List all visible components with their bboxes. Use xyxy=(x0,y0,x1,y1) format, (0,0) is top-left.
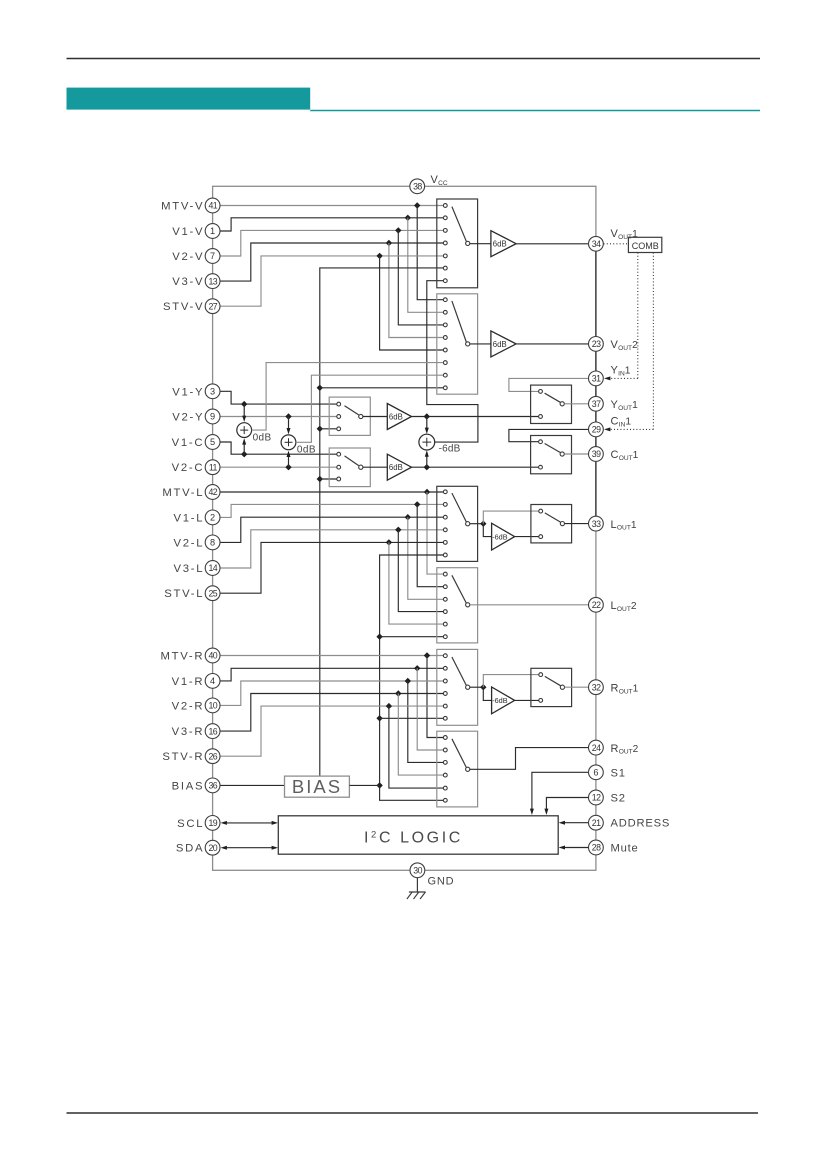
wire MTV-V xyxy=(220,205,443,207)
op-amp AY 6dB (Y) xyxy=(387,404,411,430)
teal header rule xyxy=(310,110,760,112)
switch SW1 Vout1 selector xyxy=(437,199,478,288)
wire BIAS output to bias rail xyxy=(349,784,379,786)
pin 13 V3-V xyxy=(205,274,220,289)
switch SWRO (Rout1 select) xyxy=(531,668,572,706)
svg-text:Mute: Mute xyxy=(611,843,639,855)
svg-text:34: 34 xyxy=(592,239,601,249)
wire direct branch to Rout1 switch xyxy=(483,675,538,688)
switch SWCO (Cout1 select) xyxy=(531,436,572,474)
svg-text:BIAS: BIAS xyxy=(292,776,342,797)
wire MTV-L xyxy=(220,491,443,493)
pin 32 ROUT1 xyxy=(589,680,604,695)
svg-text:V3-R: V3-R xyxy=(172,726,205,738)
wire direct branch to Lout1 switch xyxy=(483,511,538,524)
svg-text:V1-C: V1-C xyxy=(172,437,205,449)
svg-text:LOUT1: LOUT1 xyxy=(611,519,637,532)
svg-text:VOUT2: VOUT2 xyxy=(611,339,639,352)
wire pin 36 to BIAS box xyxy=(220,784,284,786)
BIAS block xyxy=(285,776,350,797)
pin 24 ROUT2 xyxy=(589,740,604,755)
svg-text:COUT1: COUT1 xyxy=(611,449,639,462)
pin 4 V1-R xyxy=(205,674,220,689)
wire SW5 output junction xyxy=(470,686,483,688)
svg-text:6dB: 6dB xyxy=(389,463,403,472)
wire MTV-R tap to SW6 xyxy=(427,656,443,738)
pin 3 V1-Y xyxy=(205,384,220,399)
wire MTV-L tap to SW4 xyxy=(427,492,443,574)
svg-text:0dB: 0dB xyxy=(297,445,316,456)
switch SWY (Y select) xyxy=(329,397,370,435)
svg-text:SCL: SCL xyxy=(177,818,204,830)
wire STV-R tap to SW6 xyxy=(389,706,443,788)
svg-text:V3-L: V3-L xyxy=(174,563,205,575)
pin 16 V3-R xyxy=(205,724,220,739)
wire STV-L xyxy=(220,542,443,593)
svg-text:LOUT2: LOUT2 xyxy=(611,600,637,613)
svg-text:0dB: 0dB xyxy=(253,433,272,444)
summing node N2 0dB (V2 Y+C) xyxy=(288,417,290,430)
wire Cin1 loop from pin 29 xyxy=(509,429,589,441)
pin 11 V2-C xyxy=(205,460,220,475)
ground symbol xyxy=(416,878,418,892)
svg-text:V1-R: V1-R xyxy=(172,676,205,688)
svg-text:CIN1: CIN1 xyxy=(611,416,632,429)
pin 28 Mute xyxy=(589,840,604,855)
summing node N3 -6dB (comb) xyxy=(426,417,428,430)
wire V1-L tap to SW4 xyxy=(417,504,443,586)
svg-text:8: 8 xyxy=(210,538,215,548)
wire S2 from pin 12 to I2C logic xyxy=(546,798,588,810)
svg-text:9: 9 xyxy=(210,412,215,422)
switch SW5 Rout1 selector xyxy=(437,649,478,725)
svg-text:29: 29 xyxy=(592,425,601,435)
wire V1-Y xyxy=(220,391,337,404)
pin 37 YOUT1 xyxy=(589,396,604,411)
wire V1-R xyxy=(220,668,443,681)
svg-text:19: 19 xyxy=(209,818,218,828)
wire V2-Y xyxy=(220,416,337,418)
svg-text:13: 13 xyxy=(209,276,218,286)
svg-text:27: 27 xyxy=(209,301,218,311)
wire SDA pin 20 to I2C logic xyxy=(227,847,273,849)
op-amp A1 6dB (Vout1) xyxy=(491,231,516,257)
pin 30 GND xyxy=(410,863,425,878)
svg-text:12: 12 xyxy=(592,793,601,803)
switch SW3 Lout1 selector xyxy=(437,486,478,561)
pin 6 S1 xyxy=(589,765,604,780)
wire V2-V tap to SW2 xyxy=(398,230,443,325)
svg-text:STV-L: STV-L xyxy=(164,588,204,600)
wire V3-L tap to SW4 xyxy=(398,530,443,612)
switch SWC (C select) xyxy=(329,448,370,487)
svg-text:42: 42 xyxy=(209,487,218,497)
COMB block xyxy=(628,237,661,252)
pin 31 YIN1 xyxy=(589,371,604,386)
wire attenuated branch to amp AL xyxy=(483,524,491,537)
wire AC out to Cout1 switch xyxy=(412,466,539,468)
svg-text:MTV-V: MTV-V xyxy=(161,201,204,213)
pin 41 MTV-V xyxy=(205,198,220,213)
svg-text:23: 23 xyxy=(592,339,601,349)
right bus dark segment (pins 34-33) xyxy=(595,244,597,524)
pin 9 V2-Y xyxy=(205,409,220,424)
pin 39 COUT1 xyxy=(589,447,604,462)
wire dotted COMB to pin 29 (Cin1) xyxy=(652,253,654,430)
svg-text:MTV-L: MTV-L xyxy=(162,487,204,499)
svg-text:32: 32 xyxy=(592,682,601,692)
wire dotted COMB to pin 31 (Yin1) xyxy=(637,253,639,379)
pin 40 MTV-R xyxy=(205,648,220,663)
svg-text:6: 6 xyxy=(593,768,598,778)
op-amp A2 6dB (Vout2) xyxy=(491,331,516,357)
svg-text:25: 25 xyxy=(209,588,218,598)
wire V2-V xyxy=(220,230,443,256)
pin 26 STV-R xyxy=(205,749,220,764)
svg-text:2: 2 xyxy=(210,513,215,523)
svg-text:BIAS: BIAS xyxy=(172,780,205,792)
svg-text:GND: GND xyxy=(428,876,455,888)
wire comb CVBS loop to SW1 c7 xyxy=(427,281,478,442)
page top rule xyxy=(67,58,761,60)
svg-text:V2-V: V2-V xyxy=(172,251,204,263)
svg-text:V2-Y: V2-Y xyxy=(172,412,204,424)
svg-text:28: 28 xyxy=(592,843,601,853)
wire V1-V xyxy=(220,218,443,231)
IC outline rails xyxy=(213,186,596,870)
svg-text:16: 16 xyxy=(209,726,218,736)
svg-text:V3-V: V3-V xyxy=(172,276,204,288)
svg-text:37: 37 xyxy=(592,399,601,409)
svg-text:38: 38 xyxy=(413,182,422,192)
svg-text:30: 30 xyxy=(413,866,422,876)
wire dotted pin 34 to COMB xyxy=(604,243,629,245)
svg-text:V2-C: V2-C xyxy=(172,462,205,474)
pin 10 V2-R xyxy=(205,698,220,713)
wire bias rail (V/Y/C sections) xyxy=(320,268,443,776)
pin 34 VOUT1 xyxy=(589,236,604,251)
op-amp AL -6dB (L) xyxy=(492,523,515,550)
svg-text:-6dB: -6dB xyxy=(492,696,508,705)
svg-text:33: 33 xyxy=(592,519,601,529)
switch SW4 Lout2 selector xyxy=(437,568,478,643)
svg-text:36: 36 xyxy=(209,781,218,791)
pin 36 BIAS xyxy=(205,778,220,793)
svg-text:V1-V: V1-V xyxy=(172,226,204,238)
wire V2-L tap to SW4 xyxy=(408,517,443,599)
pin 21 ADDRESS xyxy=(589,815,604,830)
wire SW1 to amp A1 xyxy=(470,243,491,245)
svg-text:V2-L: V2-L xyxy=(174,537,205,549)
svg-text:10: 10 xyxy=(209,701,218,711)
pin 42 MTV-L xyxy=(205,485,220,500)
switch SWYO (Yout1 select) xyxy=(531,385,572,423)
wire S1 from pin 6 to I2C logic xyxy=(532,772,589,809)
svg-text:7: 7 xyxy=(210,251,215,261)
pin 27 STV-V xyxy=(205,299,220,314)
wire bias branch to SW5 c6 xyxy=(380,717,444,719)
svg-text:4: 4 xyxy=(210,676,215,686)
pin 38 Vcc xyxy=(410,179,425,194)
wire attenuated branch to amp AR xyxy=(483,687,491,700)
wire N2 out to SW2 c7 xyxy=(296,375,443,442)
pin 2 V1-L xyxy=(205,510,220,525)
op-amp AC 6dB (C) xyxy=(387,454,411,480)
pin 20 SDA xyxy=(205,840,220,855)
wire V3-R tap to SW6 xyxy=(398,694,443,776)
svg-text:V1-L: V1-L xyxy=(174,512,205,524)
svg-text:MTV-R: MTV-R xyxy=(161,651,205,663)
svg-text:-6dB: -6dB xyxy=(492,532,508,541)
wire V2-R tap to SW6 xyxy=(408,681,443,762)
svg-text:24: 24 xyxy=(592,743,601,753)
svg-text:I2C LOGIC: I2C LOGIC xyxy=(364,829,463,846)
svg-text:YOUT1: YOUT1 xyxy=(611,399,639,412)
wire SWCO to pin 39 xyxy=(564,453,588,455)
wire SWRO to pin 32 xyxy=(565,686,589,688)
svg-text:6dB: 6dB xyxy=(493,240,507,249)
svg-text:VOUT1: VOUT1 xyxy=(611,228,639,241)
wire ADDRESS from pin 21 to I2C logic xyxy=(565,822,589,824)
switch SWLO (Lout1 select) xyxy=(531,505,572,543)
wire STV-R xyxy=(220,706,443,756)
svg-text:-6dB: -6dB xyxy=(439,443,461,454)
svg-text:11: 11 xyxy=(209,462,218,472)
pin 7 V2-V xyxy=(205,249,220,264)
pin 23 VOUT2 xyxy=(589,337,604,352)
svg-text:6dB: 6dB xyxy=(389,412,403,421)
wire SWC to amp AC xyxy=(363,466,387,468)
svg-text:S1: S1 xyxy=(611,767,626,779)
svg-text:26: 26 xyxy=(209,751,218,761)
svg-text:SDA: SDA xyxy=(176,843,204,855)
svg-text:V1-Y: V1-Y xyxy=(172,386,204,398)
wire bias branch to SW4 c6 xyxy=(380,636,444,638)
pin 1 V1-V xyxy=(205,224,220,239)
wire SWYO to pin 37 xyxy=(564,403,588,405)
wire bias branch to SW2 c8 xyxy=(320,387,443,389)
pin 22 LOUT2 xyxy=(589,597,604,612)
wire V3-R xyxy=(220,694,443,732)
wire SW3 output junction xyxy=(470,523,483,525)
wire bias branch to Y switch c3 xyxy=(320,428,337,430)
svg-text:40: 40 xyxy=(209,651,218,661)
pin 19 SCL xyxy=(205,816,220,831)
wire V2-C xyxy=(220,466,337,468)
wire SCL pin 19 to I2C logic xyxy=(227,822,273,824)
svg-text:14: 14 xyxy=(209,563,218,573)
svg-text:V2-R: V2-R xyxy=(172,700,205,712)
svg-text:STV-R: STV-R xyxy=(162,751,204,763)
svg-text:41: 41 xyxy=(209,201,218,211)
wire STV-V xyxy=(220,256,443,306)
wire STV-L tap to SW4 xyxy=(389,542,443,624)
svg-text:ADDRESS: ADDRESS xyxy=(611,818,671,830)
wire SW2 to amp A2 xyxy=(470,343,491,345)
wire V1-V tap to SW2 xyxy=(408,218,443,312)
wire A2 to pin 23 xyxy=(516,343,588,345)
wire bias rail (L/R sections) xyxy=(380,555,444,800)
wire V1-C xyxy=(220,442,337,454)
pin 33 LOUT1 xyxy=(589,516,604,531)
svg-text:ROUT1: ROUT1 xyxy=(611,682,639,695)
pin 25 STV-L xyxy=(205,586,220,601)
svg-text:5: 5 xyxy=(210,437,215,447)
wire SWY to amp AY xyxy=(363,416,387,418)
wire MTV-V tap to SW2 xyxy=(417,206,443,300)
svg-text:31: 31 xyxy=(592,374,601,384)
page bottom rule xyxy=(67,1112,759,1114)
svg-text:S2: S2 xyxy=(611,793,626,805)
svg-text:3: 3 xyxy=(210,387,215,397)
op-amp AR -6dB (R) xyxy=(492,687,515,714)
svg-text:6dB: 6dB xyxy=(493,340,507,349)
svg-text:39: 39 xyxy=(592,449,601,459)
switch SW6 Rout2 selector xyxy=(437,731,478,807)
svg-text:22: 22 xyxy=(592,600,601,610)
wire AR out to Rout1 switch xyxy=(515,699,539,701)
teal header bar xyxy=(67,88,311,110)
summing node N1 0dB (V1 Y+C) xyxy=(243,404,245,417)
wire V1-L xyxy=(220,504,443,517)
svg-text:STV-V: STV-V xyxy=(163,301,204,313)
wire V1-R tap to SW6 xyxy=(417,668,443,750)
wire V2-R xyxy=(220,681,443,705)
I2C LOGIC block xyxy=(278,816,558,854)
pin 29 CIN1 xyxy=(589,422,604,437)
wire SW6 to pin 24 xyxy=(470,748,589,770)
svg-text:21: 21 xyxy=(592,818,601,828)
wire AY out to Yout1 switch xyxy=(412,416,539,418)
wire V3-V tap to SW2 xyxy=(389,243,443,338)
pin 8 V2-L xyxy=(205,535,220,550)
svg-text:20: 20 xyxy=(209,843,218,853)
wire MTV-R xyxy=(220,655,443,657)
wire Yin1 loop from pin 31 xyxy=(509,378,589,391)
svg-text:ROUT2: ROUT2 xyxy=(611,743,639,756)
wire STV-V tap to SW2 xyxy=(380,256,444,350)
wire Mute from pin 28 to I2C logic xyxy=(565,847,589,849)
wire bias branch to C switch c3 xyxy=(320,478,337,480)
svg-text:COMB: COMB xyxy=(632,241,659,251)
wire V3-L xyxy=(220,530,443,568)
wire V3-V xyxy=(220,243,443,281)
wire SW4 to pin 22 xyxy=(470,604,589,606)
svg-text:VCC: VCC xyxy=(431,174,448,187)
wire AL out to Lout1 switch xyxy=(515,536,539,538)
wire V2-L xyxy=(220,517,443,542)
wire SWLO to pin 33 xyxy=(565,523,589,525)
pin 14 V3-L xyxy=(205,561,220,576)
wire A1 to pin 34 xyxy=(516,243,588,245)
switch SW2 Vout2 selector xyxy=(437,294,478,394)
pin 5 V1-C xyxy=(205,435,220,450)
pin 12 S2 xyxy=(589,790,604,805)
svg-text:YIN1: YIN1 xyxy=(611,365,631,378)
svg-text:1: 1 xyxy=(210,226,215,236)
wire N1 out to SW2 c6 xyxy=(252,363,444,431)
